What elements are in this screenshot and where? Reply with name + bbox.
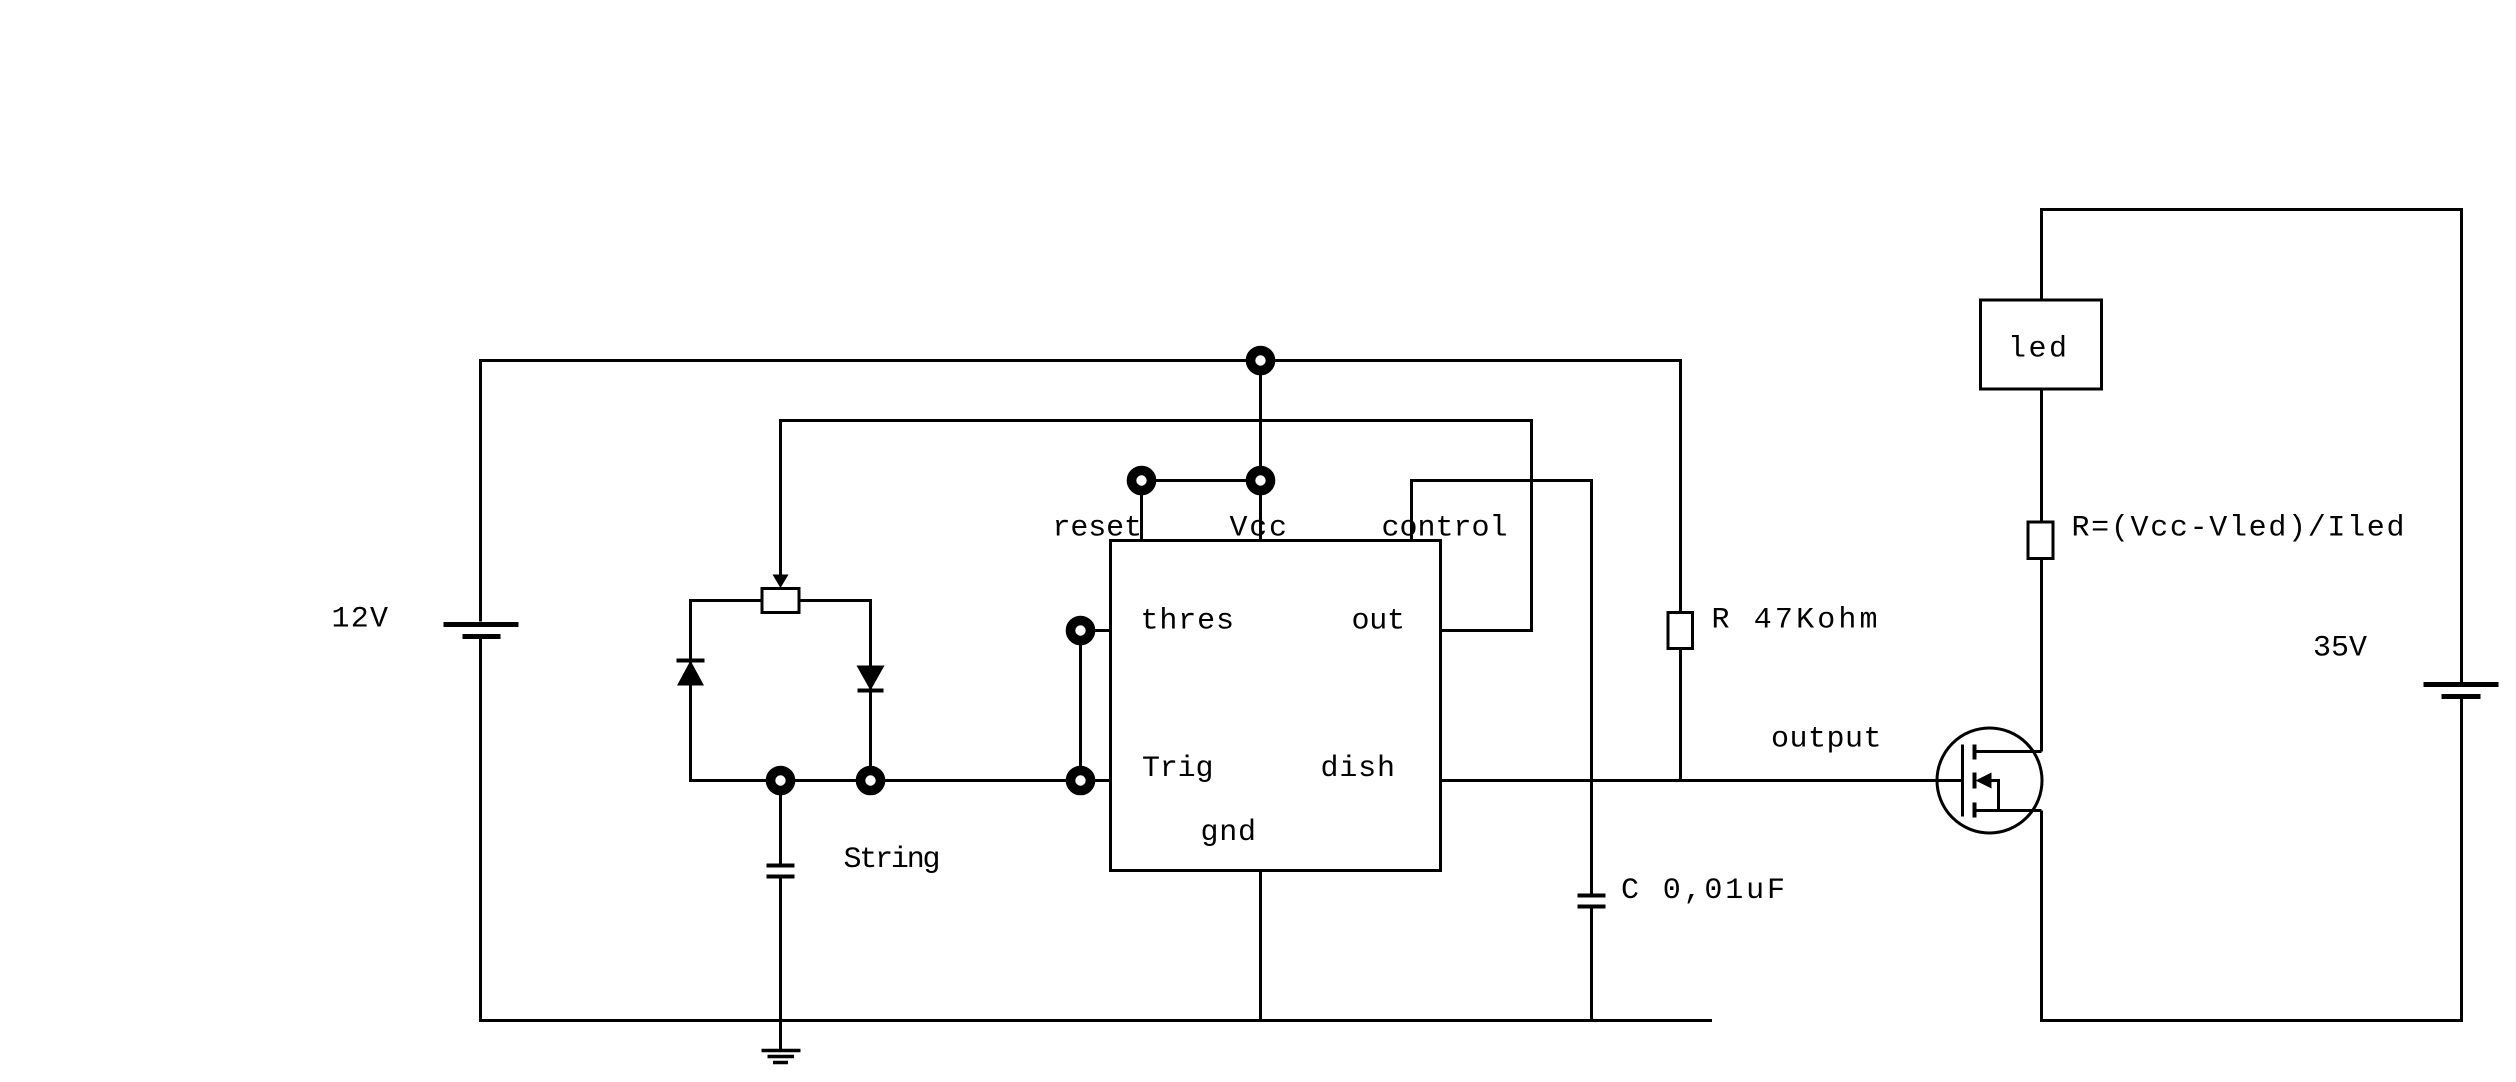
wire pot drop + second rail + out-pin return [781,421,1532,631]
diode D1 (pointing up) cathode bar [677,659,705,663]
capacitor C2 0,01uF bottom lead [1590,909,1593,1021]
wire reset pin vertical + reset-Vcc horizontal [1142,481,1261,543]
wire 12V battery bottom lead + ground rail bottom [481,639,1713,1021]
transistor Q1 channel segment bottom [1973,803,1977,818]
capacitor C-string top lead [779,781,782,864]
node junction dot string-cap [771,771,791,791]
capacitor C-string bottom lead [779,879,782,1021]
battery B1 12V long plate [444,622,519,627]
node junction dot right-diode [861,771,881,791]
wire thres-to-Trig vertical [1079,631,1082,781]
wire led box to resistor R2 [2040,389,2043,523]
diode D2 cathode bar [858,689,884,693]
transistor Q1 channel segment top [1973,745,1977,760]
svg-text:control: control [1382,512,1508,546]
transistor Q1 channel segment middle [1973,773,1977,789]
battery B2 35V long plate [2424,682,2499,687]
capacitor C2 0,01uF top plate [1578,894,1606,898]
resistor R1 47Kohm body [1668,613,1693,649]
svg-text:dish: dish [1321,752,1396,786]
transistor Q1 source internal lead [1975,809,2042,812]
led box [1981,300,2102,389]
node junction dot Trig [1071,771,1091,791]
svg-text:gnd: gnd [1201,816,1257,850]
wire MOSFET drain vertical [2040,558,2043,752]
wire MOSFET source vertical [2040,811,2043,1023]
potentiometer wiper arrow [773,575,789,589]
node junction dot top rail [1251,351,1271,371]
svg-text:C 0,01uF: C 0,01uF [1621,874,1785,908]
transistor Q1 bulk connector [1990,781,1999,811]
node junction dot thres [1071,621,1091,641]
wire gnd pin vertical [1259,869,1262,1021]
wire thres stub [1081,629,1113,632]
diode D1 triangle [677,661,704,686]
capacitor C-string bottom plate [767,875,795,879]
wire pot left horizontal + left diode branch vertical [691,601,762,781]
op-amp: 555 timer U1 box [1111,541,1441,871]
potentiometer body box [762,589,799,613]
svg-text:35V: 35V [2313,632,2367,666]
resistor R1 47Kohm bottom lead [1679,649,1682,782]
svg-text:String: String [844,843,941,877]
svg-text:thres: thres [1141,605,1235,639]
transistor Q1 MOSFET body circle [1937,728,2042,833]
capacitor C-string top plate [767,864,795,868]
ground symbol bar 2 [768,1055,795,1059]
svg-text:out: out [1352,605,1406,639]
wire control pin + capacitor C2 top lead [1412,481,1592,894]
wire Vcc pin vertical [1259,359,1262,542]
ground symbol bar 1 [762,1049,801,1053]
ground symbol bar 3 [773,1061,788,1065]
resistor R2 body [2028,522,2053,559]
transistor Q1 bulk arrow [1976,773,1992,789]
svg-text:Trig: Trig [1142,752,1214,786]
node junction dot Vcc [1251,471,1271,491]
svg-text:led: led [2008,333,2067,367]
svg-text:R 47Kohm: R 47Kohm [1712,604,1878,638]
wire 35V battery bottom lead + right loop bottom [2040,699,2462,1021]
diode D2 (pointing down) triangle [857,666,885,691]
svg-text:output: output [1771,723,1882,757]
capacitor C2 0,01uF bottom plate [1578,905,1606,909]
svg-text:12V: 12V [332,603,389,637]
svg-text:reset: reset [1053,512,1143,546]
wire led top lead + right loop top + 35V battery top lead [2042,210,2462,683]
svg-text:R=(Vcc-Vled)/Iled: R=(Vcc-Vled)/Iled [2072,512,2405,546]
transistor Q1 gate bar [1961,745,1964,817]
ground symbol stub [779,1021,782,1050]
wire dish/output horizontal to MOSFET gate [1439,779,1964,782]
transistor Q1 drain internal lead [1975,750,2042,753]
battery B2 35V short plate [2442,694,2481,699]
wire Trig horizontal [689,779,1111,782]
wire 12V battery top lead + Vcc top rail + R 47Kohm top lead [481,361,1681,622]
svg-text:Vcc: Vcc [1230,512,1288,546]
wire pot right horizontal + right diode branch vertical [800,601,871,781]
battery B1 12V short plate [463,634,501,639]
node junction dot reset [1132,471,1152,491]
